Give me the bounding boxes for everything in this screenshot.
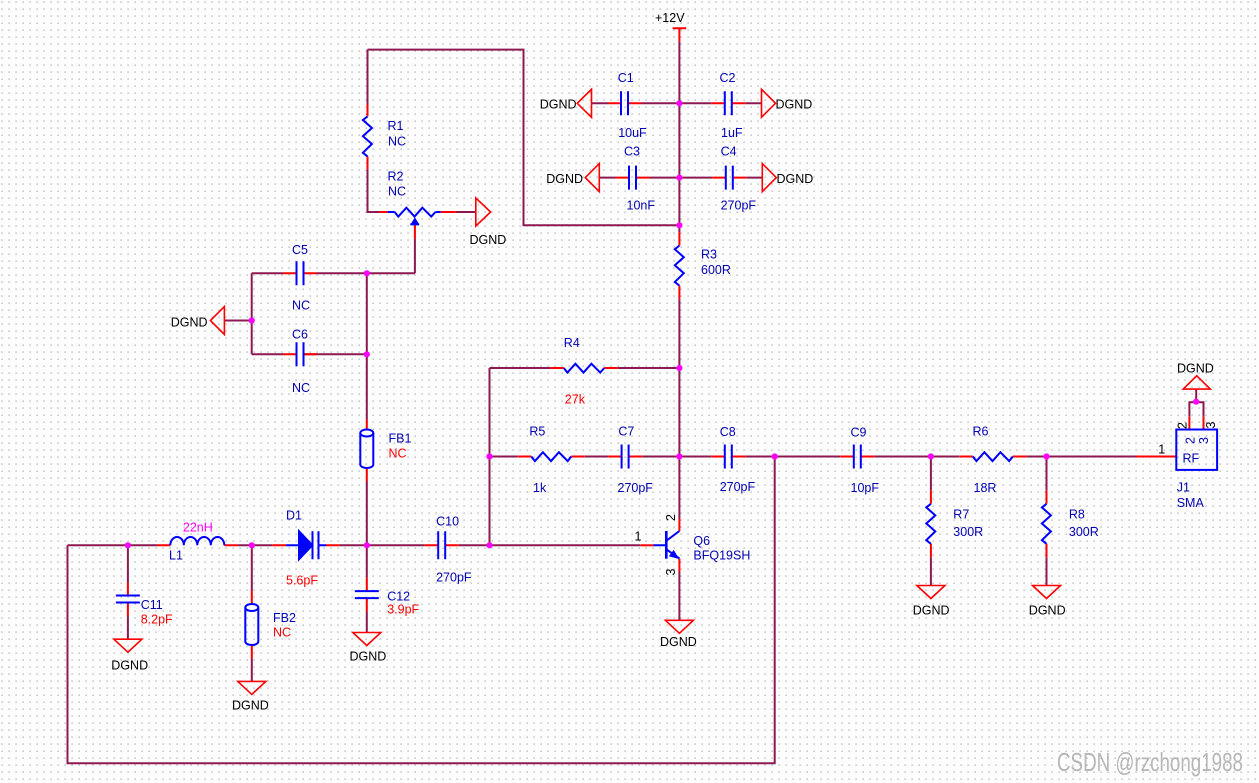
junction at C8 right feedback	[772, 453, 778, 459]
svg-text:C3: C3	[624, 145, 640, 159]
svg-text:D1: D1	[286, 509, 302, 523]
wire R2 wiper down to C5 row	[414, 239, 416, 274]
junction at +12V rail and C1 C2	[676, 100, 682, 106]
svg-text:C6: C6	[292, 328, 308, 342]
pin stubs C9	[840, 456, 874, 458]
svg-text:DGND: DGND	[470, 233, 507, 247]
capacitor C9	[854, 445, 861, 469]
wire R4 row	[490, 367, 680, 369]
junction at C7 C8	[676, 453, 682, 459]
svg-text:2: 2	[664, 514, 678, 521]
ground DGND below Q6 emitter	[665, 620, 693, 633]
svg-text:C10: C10	[436, 515, 459, 529]
svg-text:300R: 300R	[953, 525, 983, 539]
junction at R4 right	[676, 365, 682, 371]
svg-text:3: 3	[664, 569, 678, 576]
ground DGND below R7	[917, 586, 945, 599]
junction at C11 branch	[125, 542, 131, 548]
svg-text:1k: 1k	[533, 481, 547, 495]
svg-text:CSDN @rzchong1988: CSDN @rzchong1988	[1057, 747, 1243, 777]
svg-text:300R: 300R	[1069, 525, 1099, 539]
svg-text:10pF: 10pF	[851, 481, 880, 495]
junction at FB2 branch	[249, 542, 255, 548]
wire R7 branch	[930, 457, 932, 586]
svg-text:DGND: DGND	[777, 172, 814, 186]
resistor R2 wiper arrow	[410, 217, 419, 225]
pin stubs C5	[283, 272, 317, 274]
resistor R1	[363, 116, 372, 156]
svg-text:DGND: DGND	[350, 650, 387, 664]
pin stub Q6 base	[640, 544, 653, 546]
svg-text:10uF: 10uF	[618, 126, 647, 140]
power +12V bar and stub	[673, 28, 687, 42]
svg-text:C1: C1	[618, 71, 634, 85]
svg-text:R5: R5	[529, 425, 545, 439]
pin stubs C11	[127, 582, 129, 616]
svg-text:NC: NC	[292, 299, 310, 313]
wire C3 row	[599, 177, 679, 179]
ground DGND left of C1	[577, 89, 591, 117]
svg-text:270pF: 270pF	[720, 480, 756, 494]
pin stub J1 pin 1	[1137, 456, 1177, 458]
junction at C3 C4	[676, 175, 682, 181]
junction at C6 row FB1 column	[364, 351, 370, 357]
svg-text:C5: C5	[292, 243, 308, 257]
capacitor C7	[622, 445, 629, 469]
junction at C12 FB1 main row	[364, 542, 370, 548]
ground DGND below R8	[1033, 586, 1061, 599]
svg-text:DGND: DGND	[546, 172, 583, 186]
wire C2 row	[679, 102, 761, 104]
wire Q6 emitter to DGND	[678, 572, 680, 620]
svg-text:C8: C8	[720, 425, 736, 439]
svg-text:8.2pF: 8.2pF	[141, 613, 173, 627]
pin stubs C6	[283, 353, 317, 355]
svg-text:C9: C9	[851, 426, 867, 440]
wire R1 top lead	[367, 50, 369, 105]
pin stubs R5	[518, 456, 585, 458]
pin stubs R3	[678, 232, 680, 299]
pin stubs D1	[272, 544, 339, 546]
resistor R7	[926, 504, 935, 544]
capacitor C4	[726, 166, 733, 190]
pin stubs C3	[616, 177, 650, 179]
pin stubs R8	[1046, 490, 1048, 557]
connector J1 box	[1176, 430, 1217, 470]
ground DGND right of R2	[476, 198, 491, 226]
wire J1 pins 2 3 to ground node	[1189, 389, 1203, 416]
diode D1 varactor	[286, 544, 326, 546]
resistor R5	[531, 452, 571, 461]
svg-text:R2: R2	[388, 170, 404, 184]
ground DGND below FB2	[238, 681, 266, 694]
wire C5 row to FB1 vertical	[366, 273, 368, 419]
junction at R7 top	[928, 453, 934, 459]
svg-text:C7: C7	[618, 425, 634, 439]
svg-text:C11: C11	[141, 598, 163, 612]
wire C12 branch	[366, 545, 368, 632]
wire C5-C6 left vertical	[251, 273, 253, 354]
svg-text:DGND: DGND	[1029, 604, 1066, 618]
wire C6 row left segment	[252, 353, 283, 355]
pin stubs Q6 collector emitter	[678, 519, 680, 573]
svg-text:C12: C12	[387, 590, 410, 604]
svg-text:270pF: 270pF	[436, 571, 472, 585]
svg-text:10nF: 10nF	[627, 199, 656, 213]
svg-text:R4: R4	[564, 336, 580, 350]
wire R8 branch	[1046, 457, 1048, 586]
pin stubs C1	[608, 102, 642, 104]
ground DGND right of C2	[762, 89, 776, 117]
svg-text:DGND: DGND	[776, 98, 813, 112]
svg-text:1: 1	[635, 530, 642, 544]
svg-text:DGND: DGND	[111, 659, 148, 673]
svg-text:600R: 600R	[701, 263, 731, 277]
svg-text:DGND: DGND	[540, 98, 577, 112]
junction at C5 C6 DGND spur	[249, 317, 255, 323]
wire C1 row	[592, 102, 680, 104]
pin stubs L1	[157, 544, 238, 546]
pin stubs FB1	[366, 420, 368, 482]
capacitor C12	[355, 591, 379, 598]
wire C11 branch	[127, 545, 129, 639]
wire riser from R4 corner down to main row	[489, 368, 491, 545]
inductor L1	[170, 537, 224, 545]
pin stubs FB2	[251, 591, 253, 659]
wire FB1 bottom to main row	[366, 482, 368, 546]
wire top loop from R1 top to main vertical	[368, 50, 680, 226]
capacitor C5	[297, 261, 304, 285]
pin stubs R6	[959, 456, 1026, 458]
svg-text:R8: R8	[1069, 508, 1085, 522]
svg-text:3: 3	[1204, 422, 1218, 429]
wire main bottom row segments	[68, 544, 641, 546]
svg-text:RF: RF	[1183, 452, 1200, 466]
svg-text:C2: C2	[720, 71, 736, 85]
svg-text:C4: C4	[721, 145, 737, 159]
capacitor C10	[438, 531, 445, 559]
svg-text:J1: J1	[1177, 481, 1190, 495]
resistor R3	[675, 246, 684, 286]
ground DGND above J1	[1183, 376, 1210, 389]
wire R5 C7 C8 C9 R6 row segments	[490, 456, 1137, 458]
svg-text:270pF: 270pF	[618, 481, 654, 495]
wire DGND spur at C5/C6	[224, 320, 251, 322]
junction at R3 top	[676, 222, 682, 228]
svg-text:R7: R7	[953, 508, 969, 522]
wire feedback loop C8 node to bottom rail to main row left	[68, 457, 775, 764]
capacitor C1	[621, 91, 628, 115]
pin stubs R2	[379, 212, 456, 239]
svg-text:3: 3	[1197, 437, 1211, 444]
ferrite bead FB1	[360, 430, 373, 437]
resistor R2 body	[388, 211, 441, 213]
resistor R6	[973, 452, 1013, 461]
svg-text:DGND: DGND	[232, 699, 269, 713]
capacitor C11	[116, 596, 140, 603]
svg-text:DGND: DGND	[660, 635, 697, 649]
svg-text:NC: NC	[273, 626, 291, 640]
wire C5 row left segment	[252, 272, 283, 274]
capacitor C8	[725, 445, 732, 469]
wire R1 bottom to R2 corner	[368, 170, 380, 212]
ground DGND below C11	[114, 639, 142, 652]
junction at R8 top	[1043, 453, 1049, 459]
svg-text:SMA: SMA	[1177, 496, 1205, 510]
svg-text:DGND: DGND	[171, 316, 208, 330]
pin stubs C8	[711, 456, 745, 458]
svg-text:1uF: 1uF	[721, 126, 743, 140]
junction at C5 row FB1 column	[364, 270, 370, 276]
svg-text:1: 1	[1158, 443, 1165, 457]
svg-text:2: 2	[1183, 437, 1197, 444]
pin stubs R7	[930, 490, 932, 557]
wire C4 row	[679, 177, 762, 179]
pin stubs R4	[550, 367, 618, 369]
pin stubs C4	[712, 177, 746, 179]
ground DGND left of C5 C6	[210, 307, 224, 335]
pin stubs C10	[425, 544, 459, 546]
svg-text:NC: NC	[388, 185, 406, 199]
ferrite bead FB2	[245, 604, 258, 611]
wire main vertical +12V down to R3	[678, 42, 680, 232]
svg-text:2: 2	[1176, 422, 1190, 429]
resistor R4	[564, 364, 605, 373]
svg-text:NC: NC	[388, 135, 406, 149]
svg-text:L1: L1	[169, 549, 183, 563]
svg-text:NC: NC	[292, 381, 310, 395]
svg-text:BFQ19SH: BFQ19SH	[693, 549, 750, 563]
svg-text:18R: 18R	[974, 481, 997, 495]
svg-text:5.6pF: 5.6pF	[286, 574, 318, 588]
wire R3 bottom to Q6 collector	[678, 299, 680, 518]
junction at C10 right riser	[486, 542, 492, 548]
wire FB2 branch	[251, 545, 253, 681]
svg-text:R6: R6	[973, 425, 989, 439]
pin stubs C2	[711, 102, 745, 104]
svg-text:Q6: Q6	[693, 534, 710, 548]
svg-text:FB1: FB1	[389, 432, 412, 446]
pin stubs C7	[608, 456, 642, 458]
svg-text:DGND: DGND	[1177, 362, 1214, 376]
ground DGND right of C4	[762, 164, 776, 192]
svg-text:NC: NC	[389, 447, 407, 461]
wire R2 right to DGND	[456, 211, 476, 213]
svg-text:DGND: DGND	[913, 604, 950, 618]
capacitor C2	[725, 91, 732, 115]
junction at R5 left riser	[486, 453, 492, 459]
ground DGND left of C3	[585, 164, 599, 192]
junction at J1 ground node	[1193, 399, 1199, 405]
svg-text:22nH: 22nH	[183, 521, 213, 535]
ground DGND below C12	[353, 633, 381, 646]
resistor R8	[1042, 504, 1051, 544]
capacitor C6	[297, 342, 304, 366]
capacitor C3	[629, 166, 636, 190]
svg-text:3.9pF: 3.9pF	[387, 603, 419, 617]
svg-text:+12V: +12V	[655, 11, 685, 25]
wire C6 row right segment	[304, 353, 367, 355]
wire C5 row right segment to riser corner	[317, 272, 415, 274]
pin stubs J1 pins 2 3	[1189, 417, 1203, 430]
pin stubs C12	[366, 578, 368, 612]
svg-text:R1: R1	[388, 119, 404, 133]
svg-text:270pF: 270pF	[721, 199, 757, 213]
transistor Q6	[665, 531, 668, 559]
svg-text:FB2: FB2	[273, 611, 296, 625]
pin stubs R1	[367, 105, 369, 170]
svg-text:27k: 27k	[565, 393, 586, 407]
svg-text:R3: R3	[701, 248, 717, 262]
